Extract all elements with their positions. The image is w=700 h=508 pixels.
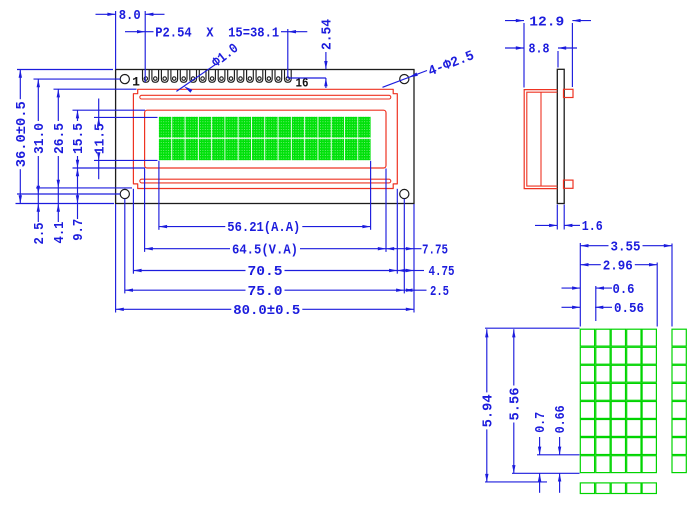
dimension 36.0±0.5: [15, 70, 30, 204]
ext line detail sep row top: [485, 481, 547, 483]
svg-text:0.6: 0.6: [613, 282, 635, 298]
ext line bezel top: [54, 88, 137, 90]
LCD character blocks 16x2: [159, 117, 371, 160]
svg-text:80.0±0.5: 80.0±0.5: [233, 304, 300, 319]
dimension 1.6: [535, 219, 603, 235]
ext line side 12.9 left: [523, 23, 525, 88]
svg-text:12.9: 12.9: [529, 14, 564, 30]
ext line detail row8 top: [537, 454, 580, 456]
ext line detail top: [485, 327, 580, 329]
dimension 2.5 right: [404, 284, 449, 300]
side view top tab: [564, 89, 574, 97]
dimension 80.0±0.5: [116, 304, 414, 319]
ext line bezel left down: [132, 189, 134, 274]
dimension 12.9: [505, 14, 591, 30]
svg-text:0.56: 0.56: [614, 301, 644, 317]
dimension 0.6: [562, 282, 635, 298]
side view bezel glass edge: [540, 92, 542, 186]
dimension 5.56: [508, 329, 523, 473]
ext line detail 3.55 right: [671, 244, 673, 327]
svg-text:4.1: 4.1: [52, 222, 68, 244]
svg-text:0.66: 0.66: [553, 405, 569, 433]
ext line hole center bottom: [17, 193, 120, 195]
svg-text:4.75: 4.75: [429, 264, 455, 280]
dimension 2.96: [580, 259, 657, 274]
ext line detail grid bottom: [512, 472, 580, 474]
dimension 8.0: [96, 8, 165, 24]
dimension 5.94: [481, 329, 496, 482]
ext line PCB left up: [115, 11, 117, 70]
side view bezel outer: [524, 90, 557, 189]
bezel outer outline: [133, 89, 397, 188]
bezel bottom fold slot: [140, 179, 391, 183]
dimension 2.5 left: [32, 194, 48, 245]
ext line green left down: [158, 161, 160, 230]
svg-text:56.21(A.A): 56.21(A.A): [227, 221, 300, 236]
dimension 64.5(V.A): [145, 243, 386, 258]
ext line PCB bottom left: [16, 203, 115, 205]
ext line detail 2.96 right: [656, 263, 658, 327]
ext line pin bottom row: [288, 77, 326, 79]
ext line window bottom: [73, 167, 146, 169]
svg-text:2.54: 2.54: [320, 19, 336, 50]
svg-text:70.5: 70.5: [248, 265, 283, 280]
ext line window top: [73, 109, 146, 111]
dimension 31.0: [33, 79, 48, 194]
side view bottom tab: [564, 180, 574, 188]
svg-text:31.0: 31.0: [33, 123, 48, 154]
mounting hole top-right: [400, 75, 409, 84]
dimension 0.7: [533, 412, 549, 493]
dimension 3.55: [580, 240, 672, 255]
ext line detail pitch up: [595, 286, 597, 321]
ext line side 8.8 right: [557, 51, 559, 68]
svg-text:64.5(V.A): 64.5(V.A): [232, 243, 298, 258]
bezel top fold slot: [140, 95, 391, 99]
svg-text:1: 1: [132, 75, 140, 90]
ext line window left down: [144, 169, 146, 252]
pin label 16: [296, 76, 309, 91]
dimension 70.5: [133, 265, 397, 280]
pixel detail adjacent row: [580, 483, 656, 494]
svg-text:75.0: 75.0: [248, 285, 283, 300]
mounting hole top-left: [120, 75, 129, 84]
ext line hole right down: [403, 199, 405, 294]
svg-text:7.75: 7.75: [422, 242, 448, 258]
dimension P2.54 X 15=38.1: [125, 25, 307, 41]
svg-text:36.0±0.5: 36.0±0.5: [15, 101, 30, 167]
svg-text:26.5: 26.5: [53, 123, 68, 154]
ext line PCB left down: [115, 204, 117, 313]
pixel grid 5x8: [580, 329, 656, 472]
ext line pin16 up: [287, 29, 289, 78]
dimension 4.75 right: [397, 264, 454, 280]
ext line green bottom: [94, 159, 158, 161]
dimension 2.54 vertical: [320, 19, 336, 88]
ext line green right down: [370, 161, 372, 230]
svg-text:2.96: 2.96: [603, 259, 633, 274]
dimension 11.5: [93, 99, 108, 180]
svg-text:15.5: 15.5: [72, 123, 87, 154]
svg-text:11.5: 11.5: [93, 123, 108, 154]
dimension 0.56: [562, 301, 645, 317]
display window opening: [145, 110, 386, 168]
dimension 56.21(A.A): [159, 221, 371, 236]
ext line PCB top left: [17, 69, 113, 71]
svg-text:5.94: 5.94: [481, 394, 496, 427]
ext line side 12.9 right: [571, 23, 573, 87]
ext line bezel bottom: [36, 187, 132, 189]
ext line hole center top: [34, 78, 121, 80]
side view PCB: [557, 69, 564, 203]
ext line hole left down: [124, 199, 126, 294]
dimension 0.66: [553, 405, 569, 492]
mounting hole bottom-left: [120, 189, 129, 198]
ext line detail grid left up: [579, 243, 581, 327]
svg-text:5.56: 5.56: [508, 388, 523, 421]
mounting hole bottom-right: [400, 189, 409, 198]
dimension 7.75 right: [386, 242, 448, 258]
svg-text:1.6: 1.6: [582, 219, 603, 235]
svg-text:3.55: 3.55: [611, 240, 641, 255]
dimension 4.1 left: [52, 188, 68, 244]
dimension 75.0: [125, 285, 405, 300]
ext line window right down: [385, 169, 387, 252]
PCB board outline (front view): [116, 70, 414, 204]
leader 4-phi2.5: [383, 48, 477, 87]
dimension 15.5: [72, 110, 87, 168]
dimension 9.7 left: [71, 168, 87, 241]
svg-text:P2.54 X 15=38.1: P2.54 X 15=38.1: [155, 25, 279, 41]
ext line PCB right down: [413, 204, 415, 313]
svg-text:9.7: 9.7: [71, 219, 87, 241]
svg-text:8.8: 8.8: [529, 42, 550, 58]
ext line pin1 up: [144, 11, 146, 82]
leader phi 1.0: [176, 41, 242, 93]
side view bezel inner: [527, 92, 558, 186]
ext line bezel right down: [396, 189, 398, 274]
ext line green top: [94, 116, 158, 118]
pixel detail adjacent column: [672, 329, 686, 472]
dimension 8.8: [505, 42, 577, 58]
svg-text:8.0: 8.0: [119, 8, 141, 24]
ext line side 1.6 right: [563, 205, 565, 230]
svg-text:0.7: 0.7: [533, 412, 549, 433]
pin label 1: [132, 75, 140, 90]
pin header 16 pins: [143, 70, 292, 83]
svg-text:2.5: 2.5: [32, 223, 48, 245]
dimension 26.5: [53, 89, 68, 188]
svg-text:2.5: 2.5: [430, 284, 449, 300]
ext line side 1.6 left: [556, 205, 558, 230]
